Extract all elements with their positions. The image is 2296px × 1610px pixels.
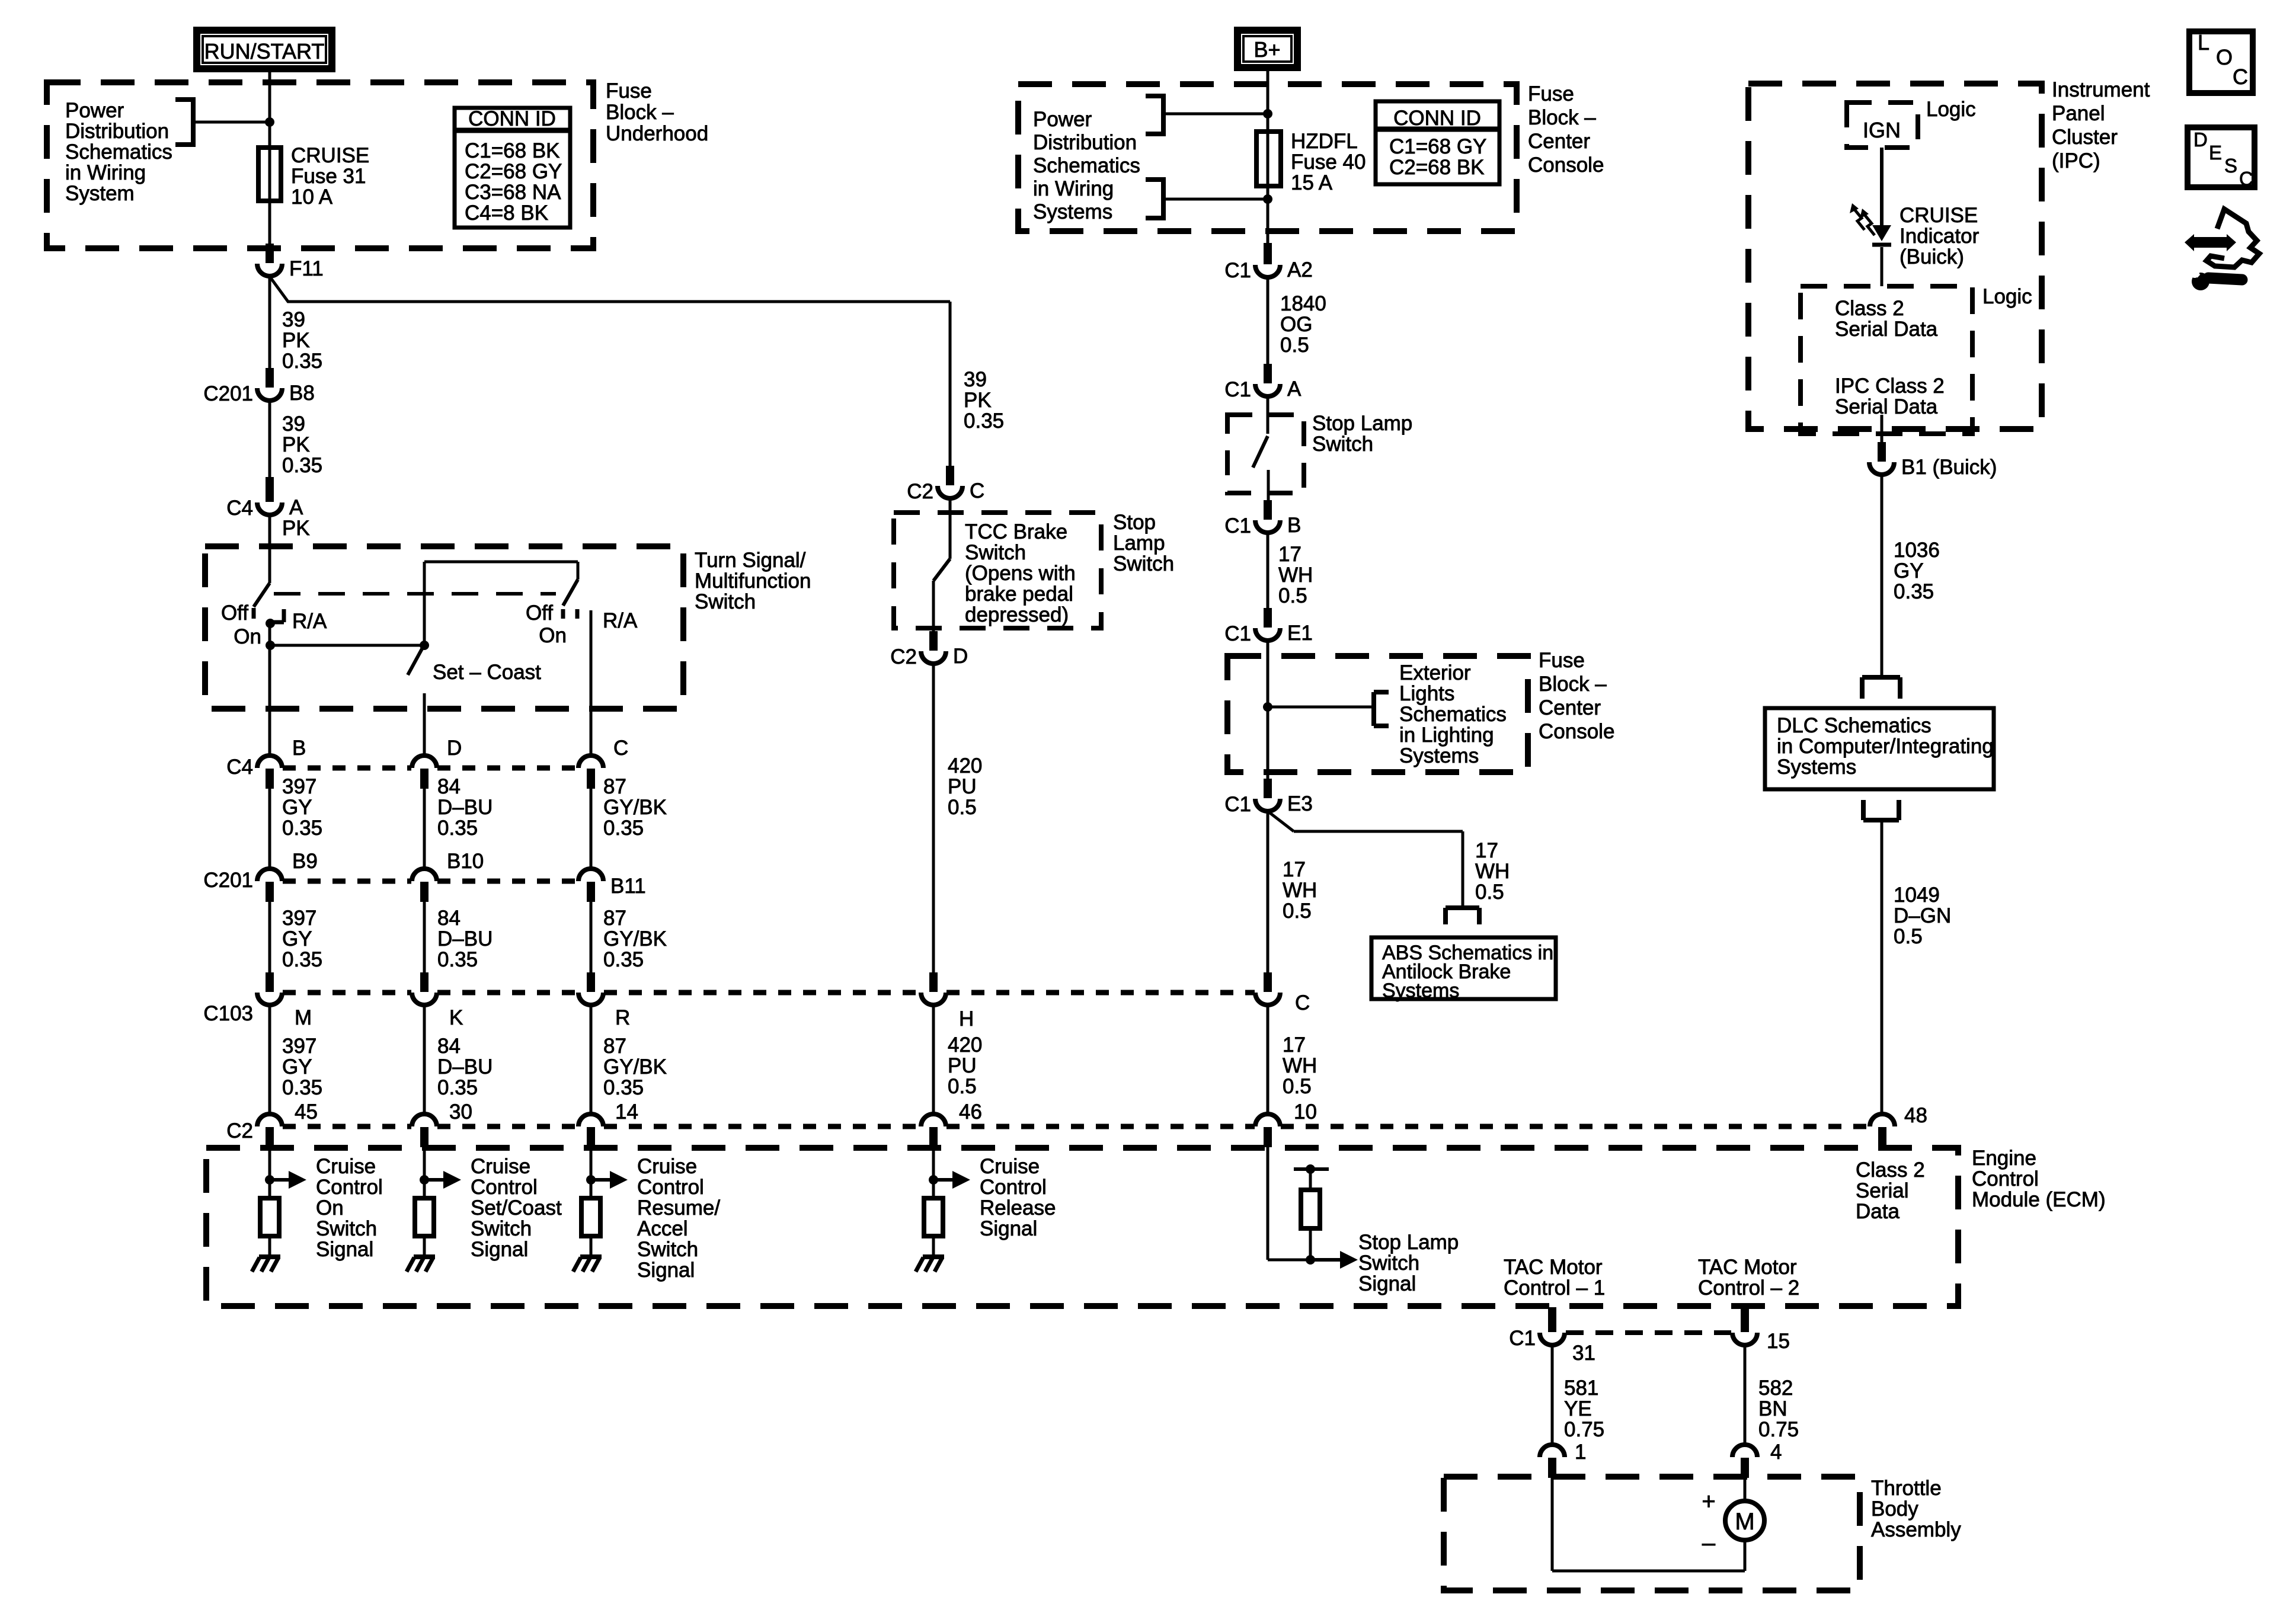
svg-text:582: 582	[1758, 1377, 1793, 1400]
svg-text:Data: Data	[1856, 1200, 1900, 1223]
svg-text:Fuse 31: Fuse 31	[291, 165, 366, 188]
svg-text:WH: WH	[1278, 564, 1313, 587]
svg-text:C4: C4	[226, 756, 253, 779]
svg-text:Underhood: Underhood	[606, 122, 708, 145]
svg-text:C1=68 BK: C1=68 BK	[465, 139, 560, 162]
svg-text:On: On	[539, 624, 567, 647]
svg-text:Fuse 40: Fuse 40	[1291, 151, 1366, 174]
svg-text:Release: Release	[980, 1196, 1056, 1219]
svg-text:Engine: Engine	[1972, 1147, 2036, 1170]
svg-text:D–BU: D–BU	[437, 927, 493, 950]
svg-text:Lamp: Lamp	[1113, 532, 1165, 555]
svg-text:PU: PU	[948, 1054, 977, 1077]
svg-text:0.35: 0.35	[282, 817, 322, 840]
svg-text:in Computer/Integrating: in Computer/Integrating	[1777, 735, 1994, 758]
svg-text:Systems: Systems	[1399, 744, 1479, 767]
svg-text:WH: WH	[1283, 879, 1317, 902]
svg-text:0.5: 0.5	[1894, 925, 1923, 948]
svg-text:Resume/: Resume/	[637, 1196, 720, 1219]
svg-text:in Wiring: in Wiring	[1033, 177, 1114, 200]
svg-text:Switch: Switch	[471, 1217, 532, 1240]
svg-text:Accel: Accel	[637, 1217, 688, 1240]
svg-text:Panel: Panel	[2052, 102, 2105, 125]
svg-text:C2=68 BK: C2=68 BK	[1389, 156, 1485, 179]
svg-text:B9: B9	[292, 850, 318, 873]
svg-text:in Wiring: in Wiring	[65, 161, 146, 184]
svg-text:C201: C201	[203, 869, 253, 892]
svg-text:Signal: Signal	[471, 1238, 528, 1261]
svg-text:C1: C1	[1224, 622, 1251, 645]
svg-text:PK: PK	[282, 517, 310, 540]
svg-text:GY: GY	[282, 927, 312, 950]
svg-text:HZDFL: HZDFL	[1291, 130, 1358, 153]
svg-text:C1=68 GY: C1=68 GY	[1389, 135, 1486, 158]
svg-text:IPC Class 2: IPC Class 2	[1835, 375, 1945, 398]
svg-text:397: 397	[282, 775, 316, 798]
svg-text:Set/Coast: Set/Coast	[471, 1196, 562, 1219]
svg-text:31: 31	[1572, 1342, 1595, 1365]
svg-text:R: R	[615, 1006, 630, 1029]
svg-text:Control: Control	[1972, 1167, 2039, 1190]
svg-text:Class 2: Class 2	[1856, 1158, 1925, 1182]
svg-text:Serial Data: Serial Data	[1835, 318, 1938, 341]
svg-text:H: H	[959, 1007, 974, 1030]
svg-text:C1: C1	[1224, 514, 1251, 537]
svg-text:C1: C1	[1509, 1327, 1536, 1350]
svg-text:A: A	[289, 496, 303, 519]
svg-text:C: C	[613, 737, 628, 760]
svg-text:17: 17	[1283, 1033, 1306, 1057]
svg-text:Switch: Switch	[316, 1217, 377, 1240]
svg-text:R/A: R/A	[292, 610, 327, 633]
svg-text:Control – 1: Control – 1	[1504, 1276, 1605, 1299]
svg-text:C: C	[970, 479, 984, 502]
svg-text:C1: C1	[1224, 378, 1251, 401]
svg-text:PK: PK	[282, 433, 310, 456]
svg-text:CONN ID: CONN ID	[468, 107, 556, 130]
svg-text:M: M	[295, 1006, 312, 1029]
svg-text:Control: Control	[980, 1176, 1047, 1199]
svg-text:B1 (Buick): B1 (Buick)	[1901, 456, 1997, 479]
svg-text:brake pedal: brake pedal	[965, 582, 1073, 606]
svg-text:Turn Signal/: Turn Signal/	[695, 549, 806, 572]
svg-text:0.35: 0.35	[282, 1076, 322, 1099]
svg-text:0.35: 0.35	[282, 948, 322, 971]
svg-text:4: 4	[1770, 1441, 1782, 1464]
svg-text:0.35: 0.35	[282, 454, 322, 477]
svg-text:BN: BN	[1758, 1397, 1787, 1420]
svg-text:Control: Control	[316, 1176, 383, 1199]
svg-text:D–BU: D–BU	[437, 796, 493, 819]
svg-text:D: D	[2193, 129, 2208, 151]
svg-text:Stop Lamp: Stop Lamp	[1358, 1231, 1459, 1254]
svg-text:C2=68 GY: C2=68 GY	[465, 160, 562, 183]
svg-text:87: 87	[603, 775, 626, 798]
svg-text:84: 84	[437, 1035, 461, 1058]
svg-text:Block –: Block –	[1528, 106, 1596, 129]
svg-text:C201: C201	[203, 382, 253, 405]
svg-text:10: 10	[1294, 1100, 1317, 1124]
svg-text:C4: C4	[226, 497, 253, 520]
svg-text:C2: C2	[907, 480, 933, 503]
svg-text:A: A	[1287, 377, 1302, 401]
svg-text:D–BU: D–BU	[437, 1055, 493, 1078]
svg-text:Fuse: Fuse	[1528, 82, 1574, 105]
svg-text:Switch: Switch	[1312, 433, 1373, 456]
svg-text:0.35: 0.35	[1894, 580, 1934, 603]
svg-text:Logic: Logic	[1982, 285, 2032, 308]
svg-text:0.5: 0.5	[1278, 584, 1307, 607]
svg-text:M: M	[1735, 1509, 1754, 1535]
svg-text:45: 45	[295, 1100, 318, 1124]
svg-text:D: D	[953, 645, 968, 668]
svg-text:WH: WH	[1283, 1054, 1317, 1077]
svg-text:D: D	[447, 737, 462, 760]
svg-text:C: C	[2233, 65, 2248, 89]
svg-text:GY: GY	[282, 1055, 312, 1078]
svg-text:Serial Data: Serial Data	[1835, 395, 1938, 418]
svg-text:Set – Coast: Set – Coast	[433, 661, 541, 684]
svg-text:IGN: IGN	[1863, 118, 1901, 142]
svg-text:0.35: 0.35	[437, 817, 478, 840]
svg-text:Exterior: Exterior	[1399, 661, 1471, 684]
svg-text:Center: Center	[1539, 696, 1601, 719]
svg-text:Power: Power	[1033, 108, 1092, 131]
svg-text:C2: C2	[226, 1119, 253, 1142]
svg-text:System: System	[65, 182, 135, 205]
svg-text:0.35: 0.35	[603, 948, 644, 971]
svg-text:CRUISE: CRUISE	[291, 144, 369, 167]
svg-text:39: 39	[964, 368, 987, 391]
svg-text:On: On	[234, 625, 261, 648]
svg-text:397: 397	[282, 907, 316, 930]
svg-text:C2: C2	[890, 645, 917, 668]
svg-text:Switch: Switch	[1113, 552, 1174, 575]
svg-text:E3: E3	[1287, 792, 1313, 815]
svg-text:C4=8 BK: C4=8 BK	[465, 201, 548, 225]
svg-text:Signal: Signal	[980, 1217, 1037, 1240]
svg-text:Distribution: Distribution	[65, 120, 169, 143]
svg-text:TCC Brake: TCC Brake	[965, 520, 1067, 543]
svg-text:Switch: Switch	[965, 541, 1026, 564]
svg-text:Fuse: Fuse	[1539, 649, 1585, 672]
svg-text:Stop Lamp: Stop Lamp	[1312, 412, 1412, 435]
svg-text:Class 2: Class 2	[1835, 297, 1904, 320]
svg-text:TAC Motor: TAC Motor	[1504, 1256, 1603, 1279]
svg-text:0.5: 0.5	[948, 796, 977, 819]
svg-text:TAC Motor: TAC Motor	[1698, 1256, 1797, 1279]
svg-text:Schematics: Schematics	[1399, 703, 1507, 726]
svg-text:15: 15	[1767, 1330, 1790, 1353]
svg-text:GY/BK: GY/BK	[603, 796, 667, 819]
svg-text:Fuse: Fuse	[606, 79, 652, 103]
svg-text:0.35: 0.35	[437, 948, 478, 971]
svg-text:A2: A2	[1287, 258, 1313, 281]
svg-text:PK: PK	[282, 329, 310, 352]
svg-text:0.5: 0.5	[948, 1075, 977, 1098]
svg-text:Signal: Signal	[1358, 1272, 1416, 1295]
svg-text:1: 1	[1575, 1441, 1586, 1464]
svg-text:L: L	[2198, 30, 2209, 55]
svg-text:0.5: 0.5	[1283, 900, 1312, 923]
svg-text:PK: PK	[964, 389, 992, 412]
svg-text:S: S	[2224, 155, 2237, 177]
svg-text:Logic: Logic	[1926, 98, 1976, 121]
svg-text:Console: Console	[1528, 153, 1604, 177]
svg-text:Center: Center	[1528, 130, 1590, 153]
svg-text:0.35: 0.35	[964, 409, 1004, 433]
svg-text:17: 17	[1278, 543, 1302, 566]
svg-text:Multifunction: Multifunction	[695, 569, 811, 593]
svg-text:Serial: Serial	[1856, 1179, 1908, 1202]
svg-text:depressed): depressed)	[965, 603, 1069, 626]
svg-text:C1: C1	[1224, 793, 1251, 816]
svg-text:15 A: 15 A	[1291, 171, 1333, 194]
svg-text:Systems: Systems	[1033, 200, 1112, 223]
svg-text:420: 420	[948, 1033, 982, 1057]
svg-text:Indicator: Indicator	[1900, 225, 1980, 248]
svg-text:Switch: Switch	[695, 590, 756, 613]
svg-text:OG: OG	[1280, 313, 1312, 336]
svg-text:Control: Control	[637, 1176, 704, 1199]
svg-text:Lights: Lights	[1399, 682, 1454, 705]
svg-text:Distribution: Distribution	[1033, 131, 1137, 154]
svg-text:0.75: 0.75	[1564, 1418, 1604, 1441]
svg-text:84: 84	[437, 775, 461, 798]
svg-text:1036: 1036	[1894, 539, 1940, 562]
svg-text:B+: B+	[1253, 37, 1280, 62]
svg-text:(Buick): (Buick)	[1900, 245, 1964, 268]
svg-text:14: 14	[615, 1100, 638, 1124]
svg-text:E1: E1	[1287, 622, 1313, 645]
svg-text:K: K	[449, 1006, 463, 1029]
svg-text:RUN/START: RUN/START	[204, 39, 325, 63]
svg-text:Cruise: Cruise	[471, 1155, 530, 1178]
svg-text:420: 420	[948, 754, 982, 777]
svg-text:On: On	[316, 1196, 344, 1219]
svg-text:Stop: Stop	[1113, 511, 1156, 534]
svg-text:GY: GY	[282, 796, 312, 819]
svg-text:48: 48	[1904, 1104, 1927, 1127]
svg-text:Module (ECM): Module (ECM)	[1972, 1188, 2106, 1211]
svg-text:C: C	[2239, 168, 2253, 190]
svg-text:39: 39	[282, 308, 305, 331]
svg-text:581: 581	[1564, 1377, 1598, 1400]
svg-text:0.75: 0.75	[1758, 1418, 1799, 1441]
svg-text:Cruise: Cruise	[980, 1155, 1040, 1178]
svg-text:0.5: 0.5	[1283, 1075, 1312, 1098]
svg-text:GY/BK: GY/BK	[603, 1055, 667, 1078]
svg-text:Cluster: Cluster	[2052, 126, 2118, 149]
svg-text:0.35: 0.35	[282, 350, 322, 373]
svg-text:87: 87	[603, 1035, 626, 1058]
svg-text:PU: PU	[948, 775, 977, 798]
svg-text:C103: C103	[203, 1002, 253, 1025]
svg-text:Instrument: Instrument	[2052, 78, 2150, 101]
svg-text:1049: 1049	[1894, 884, 1940, 907]
svg-text:F11: F11	[289, 257, 324, 280]
svg-text:39: 39	[282, 412, 305, 436]
svg-text:0.5: 0.5	[1475, 881, 1504, 904]
svg-text:Assembly: Assembly	[1871, 1518, 1961, 1541]
svg-text:Block –: Block –	[606, 101, 674, 124]
svg-text:CONN ID: CONN ID	[1393, 107, 1481, 130]
svg-text:Switch: Switch	[1358, 1251, 1419, 1275]
svg-text:D–GN: D–GN	[1894, 904, 1951, 927]
svg-text:10 A: 10 A	[291, 185, 333, 209]
svg-text:1840: 1840	[1280, 292, 1326, 315]
svg-text:0.35: 0.35	[437, 1076, 478, 1099]
svg-text:Signal: Signal	[316, 1238, 373, 1261]
svg-text:17: 17	[1283, 858, 1306, 881]
svg-text:Systems: Systems	[1777, 756, 1856, 779]
svg-text:GY/BK: GY/BK	[603, 927, 667, 950]
svg-text:(IPC): (IPC)	[2052, 149, 2100, 172]
svg-text:Control: Control	[471, 1176, 538, 1199]
svg-text:Block –: Block –	[1539, 673, 1607, 696]
svg-text:C: C	[1295, 991, 1310, 1014]
svg-text:Throttle: Throttle	[1871, 1477, 1942, 1500]
svg-text:DLC Schematics: DLC Schematics	[1777, 714, 1932, 737]
svg-text:GY: GY	[1894, 559, 1924, 582]
svg-text:O: O	[2216, 45, 2233, 69]
svg-text:Body: Body	[1871, 1497, 1918, 1521]
svg-text:C1: C1	[1224, 259, 1251, 282]
svg-text:Systems: Systems	[1382, 980, 1459, 1002]
svg-text:87: 87	[603, 907, 626, 930]
svg-text:E: E	[2209, 142, 2222, 164]
svg-text:in Lighting: in Lighting	[1399, 724, 1494, 747]
svg-text:YE: YE	[1564, 1397, 1592, 1420]
svg-text:Cruise: Cruise	[316, 1155, 376, 1178]
svg-text:0.35: 0.35	[603, 1076, 644, 1099]
svg-text:Schematics: Schematics	[65, 140, 172, 164]
svg-text:17: 17	[1475, 839, 1498, 862]
svg-text:0.35: 0.35	[603, 817, 644, 840]
svg-text:Signal: Signal	[637, 1259, 695, 1282]
svg-text:Switch: Switch	[637, 1238, 698, 1261]
svg-text:0.5: 0.5	[1280, 334, 1309, 357]
svg-text:Control – 2: Control – 2	[1698, 1276, 1799, 1299]
svg-text:Off: Off	[221, 601, 248, 625]
svg-text:CRUISE: CRUISE	[1900, 204, 1978, 227]
svg-text:B: B	[292, 737, 306, 760]
svg-text:Power: Power	[65, 99, 124, 122]
svg-text:B: B	[1287, 514, 1301, 537]
svg-text:–: –	[1702, 1530, 1716, 1556]
svg-text:C3=68 NA: C3=68 NA	[465, 181, 561, 204]
svg-text:Console: Console	[1539, 720, 1614, 743]
svg-text:B10: B10	[447, 850, 484, 873]
svg-text:84: 84	[437, 907, 461, 930]
svg-text:(Opens with: (Opens with	[965, 562, 1076, 585]
svg-text:R/A: R/A	[603, 609, 638, 632]
svg-text:B8: B8	[289, 382, 315, 405]
svg-text:+: +	[1702, 1489, 1715, 1515]
svg-text:397: 397	[282, 1035, 316, 1058]
svg-text:B11: B11	[610, 875, 646, 898]
svg-text:Cruise: Cruise	[637, 1155, 697, 1178]
svg-text:Schematics: Schematics	[1033, 154, 1140, 177]
svg-text:WH: WH	[1475, 860, 1510, 883]
svg-text:Off: Off	[526, 601, 553, 625]
svg-text:46: 46	[959, 1100, 982, 1124]
svg-text:30: 30	[449, 1100, 472, 1124]
